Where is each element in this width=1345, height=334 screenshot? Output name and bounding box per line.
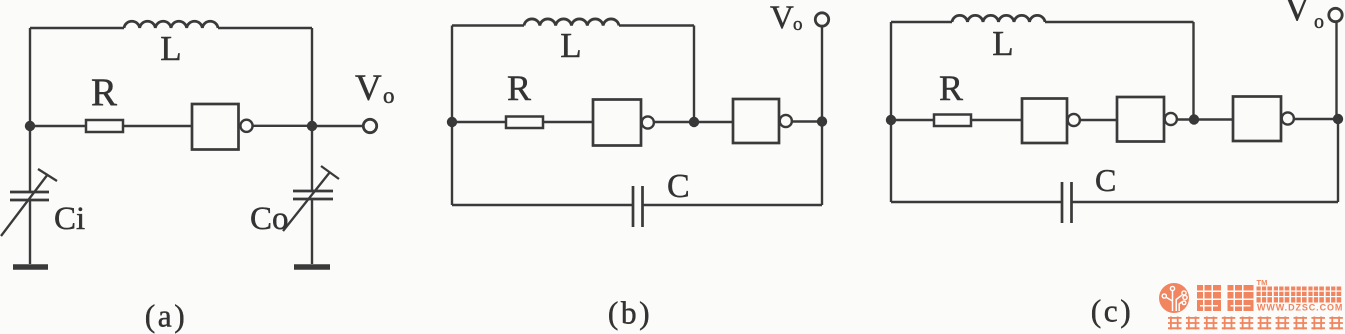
capacitor C plates (circuit c) bbox=[1062, 182, 1072, 223]
variable capacitor Ci plates (circuit a) bbox=[10, 192, 49, 200]
inverter gate 1 (circuit c) bbox=[1022, 99, 1067, 144]
wire: circuit c bottom left segment bbox=[891, 201, 1062, 203]
svg-text:L: L bbox=[560, 26, 581, 65]
svg-text:L: L bbox=[992, 24, 1013, 63]
wire: circuit c output vertical down bbox=[1337, 119, 1339, 202]
node: circuit c left junction bbox=[886, 115, 896, 125]
wire: circuit b gate2 to output junction bbox=[792, 120, 822, 122]
wire: circuit a output lead bbox=[312, 125, 364, 127]
wire: circuit c top right segment bbox=[1045, 21, 1194, 23]
node: circuit c output junction bbox=[1333, 114, 1343, 124]
node: circuit a left junction bbox=[25, 121, 35, 131]
svg-text:C: C bbox=[667, 168, 690, 205]
inductor L (circuit c) bbox=[952, 15, 1045, 22]
wire: circuit c resistor to gate 1 bbox=[971, 119, 1022, 121]
wire: circuit c gate3 to output junction bbox=[1294, 118, 1338, 120]
inverter gate U1 (circuit a) bbox=[192, 104, 239, 150]
wire: circuit b top left segment bbox=[452, 24, 524, 26]
wire: circuit a row, left of resistor bbox=[30, 125, 86, 127]
inductor L (circuit a) bbox=[124, 21, 218, 28]
ground (below Co) bbox=[294, 264, 330, 270]
svg-text:TM: TM bbox=[1257, 278, 1268, 287]
svg-text:(b): (b) bbox=[608, 296, 652, 331]
svg-text:L: L bbox=[160, 29, 181, 68]
watermark logo 维库电子市场网 WWW.DZSC.COM bbox=[1159, 278, 1343, 330]
ground (below Ci) bbox=[13, 264, 48, 270]
node: circuit c feedback junction bbox=[1189, 114, 1199, 124]
inverter bubble 2 (circuit c) bbox=[1165, 113, 1177, 125]
node: circuit a right junction bbox=[307, 121, 317, 131]
wire: circuit c bottom right segment bbox=[1072, 201, 1339, 203]
inverter gate 1 (circuit b) bbox=[593, 100, 641, 146]
inverter bubble 1 (circuit b) bbox=[642, 116, 654, 128]
wire: circuit c left vertical bbox=[890, 22, 892, 202]
wire: circuit b bottom left segment bbox=[452, 204, 633, 206]
wire: circuit a top left segment bbox=[30, 27, 124, 29]
wire: circuit c feedback vertical bbox=[1192, 22, 1194, 120]
svg-text:(c): (c) bbox=[1091, 294, 1133, 329]
wire: circuit b left vertical bbox=[451, 26, 453, 206]
svg-text:V: V bbox=[770, 0, 794, 36]
variable capacitor Co arrow (circuit a) bbox=[283, 166, 339, 231]
node: circuit b left junction bbox=[447, 117, 457, 127]
svg-text:Co: Co bbox=[250, 201, 289, 237]
svg-text:WWW.DZSC.COM: WWW.DZSC.COM bbox=[1257, 303, 1343, 313]
svg-text:R: R bbox=[507, 68, 531, 108]
wire: circuit b bottom right segment bbox=[643, 204, 823, 206]
capacitor C plates (circuit b) bbox=[633, 186, 643, 227]
terminal Vo (circuit b) bbox=[815, 13, 828, 26]
svg-text:C: C bbox=[1095, 162, 1116, 198]
svg-text:R: R bbox=[939, 68, 963, 108]
svg-text:V: V bbox=[1284, 0, 1310, 28]
inverter bubble 2 (circuit b) bbox=[780, 115, 792, 127]
variable capacitor Ci arrow (circuit a) bbox=[1, 169, 57, 236]
wire: circuit c top left segment bbox=[891, 21, 952, 23]
svg-text:(a): (a) bbox=[145, 299, 187, 334]
wire: circuit a gate output to junction bbox=[252, 125, 312, 127]
wire: circuit b gate1 to gate2 bbox=[654, 121, 733, 123]
node: circuit b output junction bbox=[817, 116, 827, 126]
terminal Vo (circuit c) bbox=[1329, 8, 1342, 21]
svg-text:V: V bbox=[355, 68, 382, 109]
terminal Vo (circuit a) bbox=[363, 119, 376, 132]
wire: circuit c row left of resistor bbox=[891, 119, 934, 121]
wire: circuit a top right segment bbox=[218, 27, 312, 29]
svg-text:o: o bbox=[1314, 11, 1324, 33]
wire: circuit c output vertical up bbox=[1335, 21, 1337, 120]
svg-text:o: o bbox=[793, 14, 803, 35]
svg-text:o: o bbox=[383, 83, 395, 108]
inverter gate 2 (circuit c) bbox=[1117, 97, 1164, 142]
inverter bubble U1 (circuit a) bbox=[240, 120, 252, 132]
wire: circuit b output vertical down bbox=[821, 122, 823, 206]
wire: circuit b resistor to gate 1 bbox=[543, 121, 593, 123]
inverter bubble 3 (circuit c) bbox=[1282, 112, 1294, 124]
inverter bubble 1 (circuit c) bbox=[1068, 114, 1080, 126]
node: circuit b feedback junction bbox=[689, 117, 699, 127]
wire: circuit c gate2 to gate3 bbox=[1177, 118, 1233, 120]
wire: circuit c gate1 to gate2 bbox=[1080, 119, 1117, 121]
variable capacitor Co plates (circuit a) bbox=[293, 191, 333, 199]
resistor R (circuit c) bbox=[934, 115, 971, 127]
wire: circuit b output vertical up bbox=[821, 26, 823, 122]
wire: circuit a right vertical bbox=[311, 28, 313, 191]
wire: Ci to ground bbox=[29, 200, 31, 264]
wire: circuit a resistor to gate bbox=[123, 125, 192, 127]
inductor L (circuit b) bbox=[524, 19, 619, 26]
inverter gate 3 (circuit c) bbox=[1233, 97, 1281, 142]
svg-text:Ci: Ci bbox=[54, 201, 85, 237]
wire: circuit b row left of resistor bbox=[452, 121, 506, 123]
wire: circuit a left vertical bbox=[29, 28, 31, 192]
wire: circuit b feedback vertical bbox=[693, 26, 695, 123]
resistor R (circuit b) bbox=[506, 117, 543, 129]
svg-text:R: R bbox=[91, 71, 117, 114]
resistor R (circuit a) bbox=[86, 120, 123, 132]
wire: Co to ground bbox=[311, 199, 313, 264]
wire: circuit b top right segment bbox=[619, 24, 694, 26]
inverter gate 2 (circuit b) bbox=[733, 99, 779, 143]
